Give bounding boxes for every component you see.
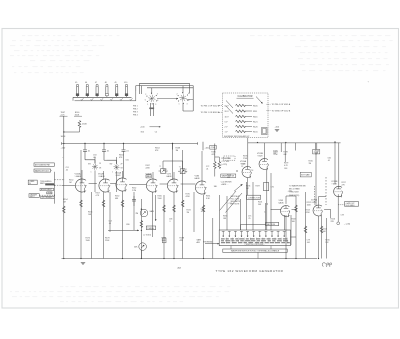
svg-text:TO PIN 1 OF B162 A: TO PIN 1 OF B162 A — [201, 111, 220, 114]
svg-text:3: 3 — [155, 104, 156, 106]
svg-text:4: 4 — [157, 94, 158, 96]
svg-text:TRIGGER: TRIGGER — [30, 194, 38, 196]
svg-text:ASTIGMATISM PAT: ASTIGMATISM PAT — [35, 164, 50, 167]
svg-text:INPUT: INPUT — [30, 196, 35, 198]
svg-text:SECTION: SECTION — [267, 224, 276, 226]
svg-text:.01: .01 — [328, 160, 331, 162]
svg-text:TIMING: TIMING — [147, 228, 154, 230]
svg-text:46: 46 — [85, 82, 87, 84]
svg-text:7: 7 — [166, 172, 167, 174]
svg-text:150K: 150K — [82, 124, 87, 126]
svg-text:SHOWN AT: SHOWN AT — [203, 241, 213, 244]
svg-text:6: 6 — [145, 100, 146, 102]
svg-text:150K: 150K — [86, 240, 91, 242]
svg-text:2: 2 — [145, 94, 146, 96]
svg-text:(SEE NOTE): (SEE NOTE) — [289, 195, 300, 197]
svg-text:.25: .25 — [248, 218, 251, 220]
svg-text:R116: R116 — [253, 116, 257, 118]
svg-text:2F: 2F — [121, 163, 123, 165]
svg-text:6AU6: 6AU6 — [279, 202, 285, 205]
svg-text:22: 22 — [241, 166, 243, 168]
svg-text:EXT SAW: EXT SAW — [301, 174, 310, 177]
svg-text:R197: R197 — [256, 186, 260, 188]
svg-text:2M: 2M — [136, 213, 139, 215]
svg-text:B16: B16 — [141, 131, 144, 133]
svg-text:T1: T1 — [159, 166, 161, 168]
svg-text:.01: .01 — [107, 151, 110, 153]
svg-text:47: 47 — [95, 82, 97, 84]
svg-text:7: 7 — [186, 172, 187, 174]
svg-text:.001: .001 — [307, 242, 311, 244]
svg-text:1: 1 — [147, 104, 148, 106]
svg-text:CONNECTOR: CONNECTOR — [248, 197, 261, 199]
svg-text:ADJ: ADJ — [197, 241, 201, 244]
svg-text:410: 410 — [124, 82, 127, 84]
svg-text:1: 1 — [91, 171, 92, 173]
svg-text:6: 6 — [176, 99, 177, 101]
svg-text:SEL: SEL — [214, 186, 217, 188]
svg-text:RATE: RATE — [40, 182, 45, 185]
svg-text:.01: .01 — [201, 211, 204, 213]
svg-text:1M: 1M — [176, 150, 179, 152]
svg-text:( SWITCH POSITIONS ): ( SWITCH POSITIONS ) — [245, 244, 265, 246]
svg-text:→ (+80): → (+80) — [344, 223, 351, 225]
svg-text:C80: C80 — [126, 224, 129, 226]
svg-text:R105: R105 — [253, 105, 258, 107]
svg-text:LEVEL: LEVEL — [47, 193, 52, 195]
svg-text:C55: C55 — [126, 160, 129, 162]
svg-text:TO WAVEFORM SW: TO WAVEFORM SW — [289, 185, 306, 188]
svg-text:(+225): (+225) — [222, 164, 228, 166]
svg-text:.01: .01 — [206, 169, 209, 171]
svg-text:8: 8 — [157, 100, 158, 102]
svg-text:4: 4 — [188, 93, 189, 95]
svg-text:2F: 2F — [99, 163, 101, 165]
svg-text:R126: R126 — [253, 126, 258, 128]
svg-text:C4: C4 — [155, 131, 157, 133]
svg-text:PIN 2: PIN 2 — [133, 109, 138, 111]
svg-text:2: 2 — [186, 169, 187, 171]
svg-text:C76: C76 — [271, 187, 274, 189]
svg-text:(NO TRIGGER): (NO TRIGGER) — [42, 197, 53, 199]
svg-text:.01: .01 — [126, 151, 129, 153]
svg-text:2.2M: 2.2M — [132, 190, 136, 192]
svg-text:TO GRID OF V152 B: TO GRID OF V152 B — [272, 111, 291, 113]
svg-text:+100: +100 — [205, 148, 209, 150]
svg-text:(± VOLT): (± VOLT) — [144, 235, 152, 237]
svg-text:SAW: SAW — [150, 210, 154, 213]
svg-text:1: 1 — [179, 104, 180, 106]
svg-text:2: 2 — [177, 94, 178, 96]
svg-text:PIN 4: PIN 4 — [133, 115, 138, 117]
svg-text:SAWTOOTH OUT: SAWTOOTH OUT — [35, 170, 49, 173]
svg-text:.01: .01 — [88, 151, 91, 153]
svg-text:C74: C74 — [229, 203, 232, 205]
svg-text:R111: R111 — [253, 111, 257, 113]
svg-text:C63: C63 — [284, 168, 287, 170]
svg-text:WAVEFORM SWITCH IN FULLY INTER: WAVEFORM SWITCH IN FULLY INTERNAL ALLOWA… — [231, 250, 280, 253]
svg-text:48: 48 — [105, 82, 107, 84]
svg-text:.02: .02 — [66, 170, 69, 172]
svg-text:R121: R121 — [253, 121, 258, 123]
svg-text:TO PIN 4 OF V141 A: TO PIN 4 OF V141 A — [272, 103, 291, 106]
svg-text:R131: R131 — [253, 131, 258, 133]
svg-text:SW: SW — [88, 163, 91, 165]
svg-text:THRU R209: THRU R209 — [289, 192, 299, 194]
svg-text:+225V: +225V — [225, 158, 232, 160]
svg-text:100K: 100K — [61, 136, 66, 138]
svg-text:1M: 1M — [63, 202, 66, 204]
svg-text:TO PIN 1 OF V152 B: TO PIN 1 OF V152 B — [201, 106, 220, 108]
svg-text:6AU6: 6AU6 — [167, 175, 173, 178]
svg-text:TYPE 162 WAVEFORM GENERATOR: TYPE 162 WAVEFORM GENERATOR — [216, 269, 284, 273]
svg-text:CALIBRATOR: CALIBRATOR — [237, 95, 252, 98]
svg-text:2: 2 — [166, 169, 167, 171]
svg-text:3: 3 — [187, 104, 188, 106]
svg-text:SW: SW — [110, 164, 113, 166]
svg-text:49: 49 — [115, 82, 117, 84]
svg-text:45: 45 — [75, 82, 77, 84]
svg-text:6AU6: 6AU6 — [195, 177, 201, 180]
svg-text:.05: .05 — [109, 223, 112, 225]
svg-text:+GATE ···: +GATE ··· — [221, 183, 229, 186]
svg-text:C71 .005: C71 .005 — [222, 161, 230, 163]
svg-text:1: 1 — [112, 172, 113, 174]
svg-text:C78: C78 — [341, 215, 344, 217]
svg-text:SEC 2 REAR: SEC 2 REAR — [289, 188, 300, 191]
svg-text:SHOWN AT SER 5000 AND UP: SHOWN AT SER 5000 AND UP — [224, 135, 250, 138]
svg-text:.1: .1 — [169, 221, 171, 223]
svg-text:20 V: 20 V — [225, 111, 230, 113]
svg-text:PIN 3: PIN 3 — [133, 112, 138, 114]
svg-text:10 V: 10 V — [225, 116, 230, 118]
svg-text:PIN 1: PIN 1 — [133, 106, 138, 108]
svg-text:220K: 220K — [105, 240, 110, 242]
svg-text:T1: T1 — [179, 166, 181, 168]
